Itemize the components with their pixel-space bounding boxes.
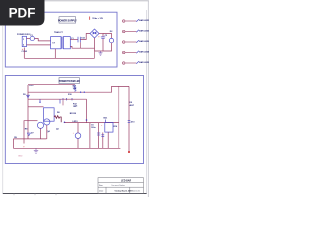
diode D5 on trunk [27,95,30,98]
bridge bottom wire [94,38,96,51]
svg-text:BAR LED1: BAR LED1 [139,19,149,22]
transistor Q3 circle [37,122,43,128]
transformer secondary box [63,37,70,49]
title block outer rect [98,178,144,194]
vertical x13 [12,139,14,148]
svg-text:TRAN CT: TRAN CT [54,31,64,34]
zener ticks on x98.6 [97,133,100,135]
bridge top stub [89,17,91,20]
svg-text:POWER SUPPLY: POWER SUPPLY [58,20,77,23]
transformer primary box [51,37,61,49]
wire C1 to bridge [80,34,90,40]
rail R2 [28,98,87,100]
svg-text:100u: 100u [91,127,96,129]
sheet frame right line [146,10,148,194]
vertical x86 [86,99,88,122]
power supply label box [59,17,76,23]
C1 lower stub [79,42,81,48]
page top edge line [42,0,149,2]
V2 red dot [128,151,130,153]
J1 down arrow wire [23,48,25,59]
off-page connector row 3 [122,40,150,43]
frame zone tick 1 [13,194,15,196]
svg-text:BAR LED2: BAR LED2 [139,30,149,33]
component tick on R2 end [59,99,61,103]
left vertical x24 [24,121,28,144]
svg-text:5Vdc > 12V: 5Vdc > 12V [92,17,103,20]
capacitor C1 plates [77,37,79,43]
BZ1 pin tick [105,120,107,123]
diode tick on V2 [128,121,131,123]
title block row line 2 [98,186,144,188]
transformer center tap wire [54,49,56,59]
svg-text:CON2: CON2 [22,51,28,53]
junction dot R1 d [84,92,85,93]
power to bar led label box [59,78,79,84]
transformer core lines [61,37,63,49]
bottom rail middle block [13,147,120,149]
rail R1 [28,86,129,92]
diode D8 ticks [101,135,104,137]
fuse F1 [30,36,34,40]
buzzer box B [105,122,113,132]
svg-text:BD139: BD139 [70,113,77,115]
title block divider v2 [129,187,131,193]
svg-text:GND: GND [18,156,23,158]
LED D2 circle [109,38,113,42]
wire rail to LED D2 [103,34,112,39]
page background [0,0,149,198]
diode D7 on trunk2 [27,133,30,136]
resistor R11 vertical [74,85,76,93]
bridge to bottom rail stub [94,51,96,58]
sheet frame left line [2,26,4,194]
component tick x40 on R2 [39,99,41,102]
pin tick R2 c with stub [62,98,64,100]
cap C3 vertical wire top [102,34,104,37]
title block row line 1 [98,182,144,184]
off-page connector row 2 [122,30,150,33]
LED1 legs [77,123,79,133]
svg-text:BAR LED4: BAR LED4 [139,51,149,54]
svg-text:Date:: Date: [99,190,104,193]
rail top y84.7 [28,84,75,86]
wire secondary top to cap C1 [70,39,78,41]
connector J1 [22,36,26,46]
wire fuse to transformer jog [35,39,51,41]
bridge rectifier D1 diamond [90,29,99,38]
ground symbol middle block [34,148,38,153]
horizontal y139 [13,138,46,140]
transistor Q4 circle [44,119,50,125]
vertical V2 [128,86,130,151]
ground symbol top block [99,51,103,55]
junction dot R1 c [80,92,81,93]
svg-text:Tuesday, May 12, 2009: Tuesday, May 12, 2009 [115,190,132,192]
wire trunk to Q cluster [28,120,38,122]
cap C3 plates [101,36,105,38]
resistor R6 horizontal [54,116,61,123]
svg-text:+12V: +12V [29,85,34,87]
off-page connector row 5 [122,61,150,64]
box B legs [107,132,109,148]
junction dot after R6 [64,122,66,124]
pin tick R2 a [66,98,68,100]
Q4 emitter wire [46,125,48,139]
LED D2 bottom wire [95,43,112,51]
diode D8 vertical [102,133,104,149]
pin tick R2 b [71,98,73,100]
vertical V1 [118,86,120,148]
vertical x89.9 [89,123,91,149]
page right edge line [147,1,149,198]
off-page connector row 4 [122,51,150,54]
power to bar led block border [5,76,143,164]
bottom rail of top block [24,57,94,59]
sheet frame bottom line [3,193,147,195]
junction dot x86 bottom [86,119,88,121]
svg-text:Size: Size [99,185,103,187]
wire J1 pin2 to transformer [27,44,51,46]
off-page connector row 1 [122,19,150,22]
vertical x98.6 [98,123,100,149]
svg-text:BAR LED5: BAR LED5 [139,61,149,64]
LED1 circle [75,133,81,139]
cap C3 vertical wire bottom [102,39,104,51]
power supply block border [5,12,117,67]
svg-text:POWER 5VDC: POWER 5VDC [17,34,31,36]
title block divider v1 [105,187,107,193]
wire secondary bottom return [70,47,94,49]
Q3 emitter wire [40,128,42,139]
trunk wire [27,85,29,139]
rail R3 short [28,106,44,108]
frame zone tick 2 [34,194,36,196]
svg-text:POWER TO BAR LED: POWER TO BAR LED [59,80,80,83]
wire bridge right to C3 [99,33,103,35]
svg-text:BAR LED3: BAR LED3 [139,40,149,43]
pdf badge background [0,0,45,26]
svg-text:LED1: LED1 [73,121,79,123]
frame zone tick 3 [55,194,57,196]
wire J1 pin1 to fuse [27,38,31,40]
svg-text:PDF: PDF [9,6,36,21]
svg-text:LED BAR: LED BAR [121,180,132,183]
rail R3b [65,122,119,124]
big component box U2 [44,108,55,121]
